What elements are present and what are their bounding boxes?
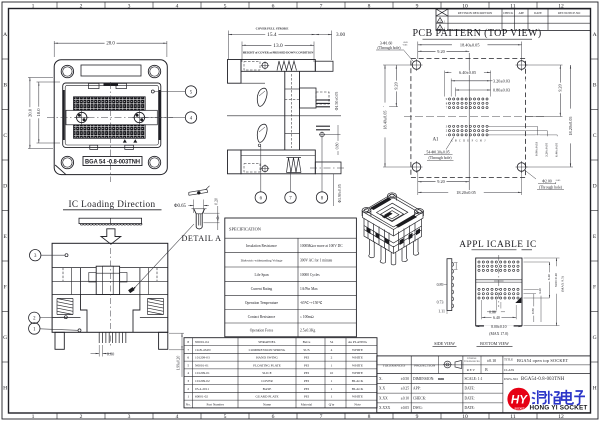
svg-text:7: 7 xyxy=(320,3,323,9)
svg-text:3: 3 xyxy=(128,3,131,9)
svg-text:Φ1.50±0.05: Φ1.50±0.05 xyxy=(335,92,339,111)
svg-text:D: D xyxy=(463,139,465,142)
pcb dim 9.20 bottom xyxy=(418,181,469,183)
svg-text:±0.05: ±0.05 xyxy=(401,406,409,410)
svg-text:±0.10: ±0.10 xyxy=(487,358,496,363)
svg-text:B: B xyxy=(455,139,457,142)
revision triangle 2 xyxy=(437,25,443,30)
svg-text:-0.03: -0.03 xyxy=(403,45,409,47)
svg-text:20.0: 20.0 xyxy=(27,108,32,117)
svg-text:F: F xyxy=(4,284,7,290)
svg-text:BLACK: BLACK xyxy=(352,387,364,391)
svg-text:2.5±0.3Kg: 2.5±0.3Kg xyxy=(300,328,316,332)
svg-text:3: 3 xyxy=(187,379,189,383)
bottom view dim 8.00 xyxy=(476,326,522,328)
IC side view xyxy=(447,259,452,311)
svg-text:9: 9 xyxy=(416,3,419,9)
svg-text:mm: mm xyxy=(438,377,445,381)
svg-text:101209-03: 101209-03 xyxy=(195,356,210,360)
svg-text:6: 6 xyxy=(272,414,275,420)
svg-text:0.20: 0.20 xyxy=(215,198,219,205)
svg-text:A: A xyxy=(593,32,597,38)
dim 0.80 (section) xyxy=(324,134,340,136)
right mid block xyxy=(300,88,317,108)
svg-text:3.20±0.03: 3.20±0.03 xyxy=(493,78,510,83)
A1 corner mark xyxy=(515,297,521,303)
svg-text:SUS: SUS xyxy=(303,348,309,352)
svg-text:5: 5 xyxy=(224,3,227,9)
svg-text:Note: Note xyxy=(354,402,361,406)
left lever upper xyxy=(257,88,267,106)
svg-text:SPECIFICATION: SPECIFICATION xyxy=(229,227,262,232)
svg-text:300V AC for 1 minute: 300V AC for 1 minute xyxy=(300,258,333,262)
svg-text:(Through hole): (Through hole) xyxy=(428,156,452,160)
bottom view mid lines xyxy=(476,279,522,281)
spring shelf lines xyxy=(52,294,80,296)
svg-text:8: 8 xyxy=(368,3,371,9)
svg-text:6: 6 xyxy=(187,356,189,360)
svg-text:BGA54-0.8-003TNH: BGA54-0.8-003TNH xyxy=(521,377,565,382)
svg-text:REVISION DESCRIPTION: REVISION DESCRIPTION xyxy=(458,11,493,15)
callout3 target xyxy=(65,254,68,257)
svg-text:7: 7 xyxy=(187,348,189,352)
svg-text:Name: Name xyxy=(263,402,272,406)
front view centerline xyxy=(109,248,111,348)
revision table xyxy=(436,9,591,30)
pcb dim 0.80 xyxy=(454,88,456,97)
svg-text:No.: No. xyxy=(186,402,191,406)
svg-text:11: 11 xyxy=(510,414,516,420)
svg-text:HONG YI SOCKET: HONG YI SOCKET xyxy=(529,405,587,412)
side view balls xyxy=(452,263,454,308)
svg-text:G: G xyxy=(593,335,597,341)
section view: upper flange xyxy=(228,60,242,84)
upper screw xyxy=(262,62,268,68)
svg-text:Insulation Resistance: Insulation Resistance xyxy=(246,244,277,248)
screw right xyxy=(134,112,144,122)
border reference grid: row letters left/right xyxy=(2,58,9,60)
svg-text:1.99±0.20: 1.99±0.20 xyxy=(177,356,181,371)
svg-text:3-Φ1.60: 3-Φ1.60 xyxy=(380,41,393,45)
svg-text:WHITE: WHITE xyxy=(352,371,363,375)
right contact pins top xyxy=(316,99,330,101)
svg-text:0.80: 0.80 xyxy=(489,310,496,314)
side slider steps xyxy=(80,268,82,295)
bottom view dim 6.40 xyxy=(481,300,483,319)
svg-text:E: E xyxy=(3,234,7,240)
svg-text:SHRAPNEL: SHRAPNEL xyxy=(258,340,276,344)
svg-text:PEI: PEI xyxy=(304,387,310,391)
lower flange xyxy=(228,150,242,174)
svg-text:9.20: 9.20 xyxy=(437,49,445,54)
legs xyxy=(55,332,64,349)
dim 1.99 xyxy=(169,332,184,334)
svg-text:2: 2 xyxy=(331,356,333,360)
svg-text:PEI: PEI xyxy=(304,356,310,360)
svg-text:1: 1 xyxy=(331,395,333,399)
callout 2 xyxy=(40,316,64,318)
right spring xyxy=(148,299,164,315)
svg-text:PEI: PEI xyxy=(304,395,310,399)
svg-text:N0001-01: N0001-01 xyxy=(195,363,209,367)
border reference grid: column numbers top/bottom xyxy=(56,2,58,9)
svg-text:101209-02: 101209-02 xyxy=(195,379,210,383)
svg-text:Operation Temperature: Operation Temperature xyxy=(245,301,279,305)
svg-text:SLICE: SLICE xyxy=(262,371,271,375)
socket top view: dim 28.0 xyxy=(53,41,55,57)
svg-text:0.80±0.03: 0.80±0.03 xyxy=(493,88,510,93)
center column xyxy=(284,71,286,150)
svg-text:TOLERANCES: TOLERANCES xyxy=(464,360,480,363)
latch lock tick xyxy=(104,83,119,86)
IC chip xyxy=(79,218,142,223)
logo text CN xyxy=(532,390,585,405)
revision X box xyxy=(436,9,448,16)
svg-text:N0001-04: N0001-04 xyxy=(195,340,209,344)
svg-text:BGA54 open top SOCKET: BGA54 open top SOCKET xyxy=(517,358,569,363)
base center pedestal xyxy=(81,295,140,333)
svg-text:SCALE: 1:1: SCALE: 1:1 xyxy=(465,377,483,381)
svg-text:1: 1 xyxy=(331,387,333,391)
callout2 target xyxy=(64,316,67,319)
corner screw holes xyxy=(61,65,73,77)
svg-text:11: 11 xyxy=(510,3,516,9)
svg-text:FLOATING PLATE: FLOATING PLATE xyxy=(253,363,281,367)
svg-text:COVER FULL STROKE: COVER FULL STROKE xyxy=(256,27,289,31)
svg-text:(Through hole): (Through hole) xyxy=(377,46,401,50)
svg-text:1A/Pin Max: 1A/Pin Max xyxy=(300,287,318,291)
svg-text:R E V: R E V xyxy=(467,368,476,372)
bottom pin comb xyxy=(99,332,126,343)
svg-text:D: D xyxy=(3,183,7,189)
svg-text:0.89: 0.89 xyxy=(437,283,444,287)
svg-text:B: B xyxy=(485,368,488,372)
left spring xyxy=(57,299,73,315)
svg-text:Operation Force: Operation Force xyxy=(250,328,274,332)
svg-text:4: 4 xyxy=(176,3,179,9)
svg-text:CHECK: CHECK xyxy=(503,11,514,15)
svg-text:7: 7 xyxy=(320,414,323,420)
callout1 target xyxy=(78,329,81,332)
pin-1 chamfer mark xyxy=(55,165,66,174)
middle screw bar xyxy=(66,110,157,125)
svg-text:28.0: 28.0 xyxy=(106,42,115,47)
svg-text:G: G xyxy=(476,139,478,142)
svg-text:B: B xyxy=(593,82,597,88)
svg-text:6.40: 6.40 xyxy=(547,274,551,280)
socket top view: dim 20.0 xyxy=(28,77,53,79)
svg-text:60001-02: 60001-02 xyxy=(195,395,208,399)
svg-text:4: 4 xyxy=(187,371,189,375)
svg-text:10: 10 xyxy=(330,371,334,375)
inner frame side shading xyxy=(63,90,65,140)
leader arrow from detail A xyxy=(133,224,194,289)
section view: dim 13.0 xyxy=(241,42,243,63)
svg-text:DWG.NO: DWG.NO xyxy=(504,377,518,381)
svg-text:X.XXX: X.XXX xyxy=(379,406,391,410)
svg-text:8.00±0.10: 8.00±0.10 xyxy=(554,273,558,287)
svg-text:WHITE: WHITE xyxy=(352,356,363,360)
svg-text:2: 2 xyxy=(80,414,83,420)
svg-text:PCB PATTERN (TOP VIEW): PCB PATTERN (TOP VIEW) xyxy=(412,28,541,39)
svg-text:WHITE: WHITE xyxy=(352,363,363,367)
svg-text:A: A xyxy=(3,32,7,38)
callout 7 xyxy=(290,171,292,193)
callout 1 xyxy=(40,329,78,331)
svg-text:Part Number: Part Number xyxy=(207,402,225,406)
svg-text:Current Rating: Current Rating xyxy=(251,287,273,291)
svg-text:12: 12 xyxy=(558,3,564,9)
detail A: pin body xyxy=(194,209,205,229)
svg-text:DIMENSION:: DIMENSION: xyxy=(413,377,434,381)
isometric 3D view xyxy=(362,193,423,265)
svg-text:H: H xyxy=(593,385,597,391)
svg-text:X.XX: X.XX xyxy=(379,396,388,400)
svg-text:18.20±0.05: 18.20±0.05 xyxy=(568,116,573,135)
svg-text:12: 12 xyxy=(558,414,564,420)
HONG YI logo mark xyxy=(507,388,530,411)
detail A: dim 0.20 xyxy=(204,212,220,214)
lower dashed detail xyxy=(244,164,260,173)
top latch rectangle xyxy=(81,65,141,76)
inner frame top tabs xyxy=(89,83,100,88)
svg-text:05-4-2011: 05-4-2011 xyxy=(195,387,209,391)
upper dashed detail xyxy=(244,62,260,71)
svg-text:Life Span: Life Span xyxy=(254,273,268,277)
revision triangle 1 xyxy=(437,18,443,23)
svg-text:0.80: 0.80 xyxy=(531,308,535,314)
svg-text:BOTTOM VIEW: BOTTOM VIEW xyxy=(480,341,509,346)
svg-text:C: C xyxy=(593,133,597,139)
pcb dim 18.20 bottom xyxy=(417,170,419,195)
screw left xyxy=(77,112,87,122)
lower screw xyxy=(262,166,268,172)
detail A: pin top plate xyxy=(189,189,208,195)
svg-text:HAND SWING: HAND SWING xyxy=(256,356,278,360)
bottom view right dims xyxy=(524,288,544,290)
cover step lines xyxy=(52,267,96,269)
svg-text:0.80±0.03: 0.80±0.03 xyxy=(535,142,539,156)
svg-text:Φ2.00: Φ2.00 xyxy=(542,179,552,183)
svg-text:HEIGHT of COVER at PRESSED DOW: HEIGHT of COVER at PRESSED DOWN CONDITIO… xyxy=(243,51,315,55)
callout 4 xyxy=(145,117,186,119)
bottom view ball grid xyxy=(478,261,519,299)
svg-text:X.X: X.X xyxy=(379,387,385,391)
socket body outline xyxy=(54,60,167,175)
svg-text:10: 10 xyxy=(462,414,468,420)
center block xyxy=(96,266,119,294)
svg-text:9.20: 9.20 xyxy=(394,82,399,89)
svg-text:COMPRESSION SPRING: COMPRESSION SPRING xyxy=(249,348,286,352)
svg-text:WHITE: WHITE xyxy=(352,395,363,399)
IC bottom view outline xyxy=(476,258,522,326)
svg-text:E: E xyxy=(593,234,597,240)
svg-text:TOLERANCES: TOLERANCES xyxy=(383,364,406,368)
svg-text:DATE:: DATE: xyxy=(465,387,475,391)
svg-text:1000MΩor more at 100V DC: 1000MΩor more at 100V DC xyxy=(300,244,343,248)
dim 0.80 bottom xyxy=(98,345,100,357)
vertical centerline xyxy=(110,82,112,182)
svg-text:18.40±0.05: 18.40±0.05 xyxy=(382,110,387,129)
svg-text:10: 10 xyxy=(462,3,468,9)
left lever lower xyxy=(257,124,267,142)
svg-text:19-B-4S2N: 19-B-4S2N xyxy=(195,348,211,352)
svg-text:PEI: PEI xyxy=(304,371,310,375)
svg-text:(MAX 17.0): (MAX 17.0) xyxy=(489,332,509,336)
svg-text:HY: HY xyxy=(511,395,528,407)
svg-text:BLACK: BLACK xyxy=(352,379,364,383)
svg-text:DATE:: DATE: xyxy=(465,396,475,400)
svg-text:DATE: DATE xyxy=(534,11,542,15)
svg-text:2: 2 xyxy=(187,387,189,391)
svg-text:3.20±0.05: 3.20±0.05 xyxy=(545,143,549,157)
svg-text:PEI: PEI xyxy=(304,379,310,383)
right contact pins mid xyxy=(316,125,330,127)
svg-text:C: C xyxy=(3,133,7,139)
svg-text:CLASS: CLASS xyxy=(504,368,514,372)
svg-text:3.20: 3.20 xyxy=(538,288,542,294)
pcb left dim 9.20 xyxy=(395,65,397,107)
isometric side contacts xyxy=(367,227,371,234)
svg-text:Contact Resistance: Contact Resistance xyxy=(248,315,276,319)
svg-text:RET.NOTICE.NO: RET.NOTICE.NO xyxy=(558,11,581,15)
pcb corner holes xyxy=(412,61,421,70)
loading arrow xyxy=(101,229,121,244)
svg-text:GUARD PLATE: GUARD PLATE xyxy=(255,395,278,399)
pcb dashed outline xyxy=(411,59,526,178)
specification table xyxy=(225,218,357,337)
label dia 1.90 xyxy=(333,174,335,206)
svg-text:±0.50: ±0.50 xyxy=(401,377,409,381)
svg-text:15.4: 15.4 xyxy=(267,32,277,38)
callout 3 xyxy=(41,254,65,256)
svg-text:Material: Material xyxy=(301,402,313,406)
pcb right dim 9.20 xyxy=(526,64,563,66)
svg-text:DWG:: DWG: xyxy=(413,406,423,410)
inner socket frame xyxy=(63,83,161,147)
svg-text:3.00: 3.00 xyxy=(336,32,345,38)
svg-text:2: 2 xyxy=(80,3,83,9)
svg-text:4: 4 xyxy=(331,348,333,352)
front view outline xyxy=(52,243,168,332)
parting line xyxy=(227,115,341,117)
inner frame bottom tabs xyxy=(90,145,98,149)
callout 6 xyxy=(258,144,261,147)
svg-text:6: 6 xyxy=(272,3,275,9)
svg-text:3: 3 xyxy=(128,414,131,420)
svg-text:BASE: BASE xyxy=(263,387,272,391)
lower centerline xyxy=(310,167,345,169)
svg-text:F: F xyxy=(593,284,596,290)
pcb 2.00 hole label xyxy=(525,171,536,180)
svg-text:6.40: 6.40 xyxy=(493,316,500,320)
svg-text:APPL ICABLE IC: APPL ICABLE IC xyxy=(459,240,537,250)
svg-text:101209-01: 101209-01 xyxy=(195,371,210,375)
svg-text:1.11: 1.11 xyxy=(438,310,445,314)
svg-text:≤ 100mΩ: ≤ 100mΩ xyxy=(300,315,314,319)
svg-text:H: H xyxy=(3,385,7,391)
svg-text:8: 8 xyxy=(368,414,371,420)
svg-text:B: B xyxy=(3,82,7,88)
svg-text:(Through hole): (Through hole) xyxy=(539,185,563,189)
title block xyxy=(377,356,591,413)
svg-text:0.73: 0.73 xyxy=(437,300,444,304)
svg-text:-65℃~+150℃: -65℃~+150℃ xyxy=(300,301,323,305)
svg-text:SIDE VIEW: SIDE VIEW xyxy=(434,341,455,346)
svg-text:TITLE: TITLE xyxy=(504,358,513,362)
svg-text:54-Φ0.30±0.05: 54-Φ0.30±0.05 xyxy=(426,150,449,154)
svg-text:0.80: 0.80 xyxy=(107,351,115,356)
section view: dim 15.4 xyxy=(227,31,229,60)
horizontal centerline xyxy=(47,117,173,119)
svg-text:6.40±0.05: 6.40±0.05 xyxy=(459,70,476,75)
svg-text:±0.10: ±0.10 xyxy=(401,396,409,400)
svg-text:PROJECTION: PROJECTION xyxy=(414,364,435,368)
svg-text:18.40±0.05: 18.40±0.05 xyxy=(460,42,480,47)
svg-text:WHITE: WHITE xyxy=(352,348,363,352)
pcb pad grid xyxy=(448,98,488,136)
svg-text:Φ0.65: Φ0.65 xyxy=(174,204,187,209)
svg-text:8.00±0.10: 8.00±0.10 xyxy=(491,325,506,329)
svg-text:(MAX 8.5): (MAX 8.5) xyxy=(561,275,565,292)
svg-text:PEI: PEI xyxy=(304,363,310,367)
section view: dim 3.00 xyxy=(331,31,333,61)
svg-text:H: H xyxy=(480,139,482,142)
svg-text:10000 Cycles: 10000 Cycles xyxy=(300,273,320,277)
svg-text:IC Loading Direction: IC Loading Direction xyxy=(68,199,155,209)
svg-text:Φ1.90±0.05: Φ1.90±0.05 xyxy=(338,184,342,203)
svg-text:C: C xyxy=(459,139,461,142)
svg-text:BGA 54 -0.8-003TNH: BGA 54 -0.8-003TNH xyxy=(85,158,140,165)
svg-text:9: 9 xyxy=(416,414,419,420)
svg-text:Au PLATING: Au PLATING xyxy=(348,340,368,344)
svg-text:18.20±0.05: 18.20±0.05 xyxy=(456,190,476,195)
svg-text:1: 1 xyxy=(32,3,35,9)
svg-text:G: G xyxy=(3,335,7,341)
svg-text:5: 5 xyxy=(224,414,227,420)
svg-text:8: 8 xyxy=(187,340,189,344)
svg-text:9.20: 9.20 xyxy=(437,179,445,184)
bottom view dim 0.80 xyxy=(496,300,498,313)
part label box xyxy=(83,157,142,166)
svg-text:A1: A1 xyxy=(433,138,439,143)
svg-text:1: 1 xyxy=(331,379,333,383)
side view dims xyxy=(454,262,458,264)
svg-text:54: 54 xyxy=(330,340,334,344)
svg-text:APP:: APP: xyxy=(413,387,421,391)
callout 5 xyxy=(151,90,154,93)
svg-text:Dielectric withstanding Voltag: Dielectric withstanding Voltage xyxy=(241,258,283,262)
contact pin bank (bottom) xyxy=(74,125,146,139)
svg-text:BeCu: BeCu xyxy=(303,340,311,344)
lower spring xyxy=(287,158,302,173)
pin target circle xyxy=(320,132,324,136)
svg-text:1: 1 xyxy=(187,395,189,399)
socket top view: dim 18.0 xyxy=(37,81,61,83)
svg-text:6.40±0.05: 6.40±0.05 xyxy=(555,143,559,157)
svg-text:5: 5 xyxy=(187,363,189,367)
svg-text:DETAIL A: DETAIL A xyxy=(181,234,221,243)
svg-text:9.20: 9.20 xyxy=(558,84,563,91)
svg-text:APP: APP xyxy=(518,11,524,15)
projection symbol xyxy=(444,361,451,368)
pcb dim 9.20 top xyxy=(418,50,469,52)
svg-text:X.: X. xyxy=(379,377,383,381)
svg-text:CHECK:: CHECK: xyxy=(413,396,426,400)
svg-text:1: 1 xyxy=(32,414,35,420)
callout 8 xyxy=(321,137,323,192)
pcb dim 6.40 xyxy=(444,71,446,97)
